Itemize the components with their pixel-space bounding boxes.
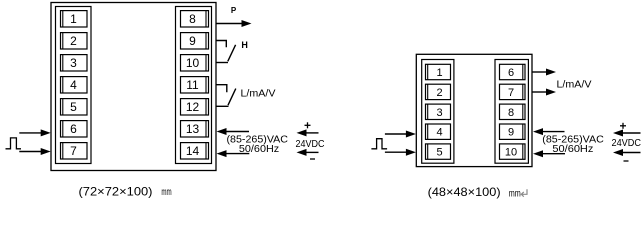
relay contact L lower wire from terminal 12 — [216, 105, 229, 107]
svg-text:(72×72×100): (72×72×100) — [79, 184, 153, 198]
svg-text:9: 9 — [508, 127, 514, 139]
svg-text:2: 2 — [70, 34, 77, 48]
label mm (48x48) — [509, 187, 521, 198]
svg-text:6: 6 — [508, 67, 514, 79]
svg-text:L/mA/V: L/mA/V — [241, 87, 276, 99]
wire P output arrow from terminal 8 — [217, 20, 252, 27]
svg-text:5: 5 — [436, 147, 442, 159]
wire pulse arrow into terminal 5 (48x48) — [385, 149, 416, 156]
pulse input symbol (72x72) — [6, 138, 22, 149]
terminal 3 (48x48) — [426, 104, 451, 119]
label 24VDC (72x72) — [296, 139, 325, 150]
wire AC input arrow into terminal 9 (48x48) — [533, 128, 565, 135]
terminal 7 (48x48) — [500, 84, 526, 99]
svg-text:5: 5 — [70, 100, 77, 114]
svg-text:14: 14 — [186, 144, 200, 158]
paragraph return mark — [521, 189, 527, 196]
terminal 1 — [61, 11, 88, 27]
svg-text:P: P — [231, 6, 237, 15]
label H — [241, 40, 248, 50]
terminal 4 — [61, 77, 88, 93]
svg-text:H: H — [241, 40, 248, 50]
wire AC input arrow into terminal 10 (48x48) — [533, 150, 565, 157]
terminal 13 — [181, 121, 209, 137]
svg-text:9: 9 — [189, 34, 196, 48]
pulse input symbol (48x48) — [371, 139, 387, 149]
terminal 4 (48x48) — [426, 124, 451, 139]
terminal 6 (48x48) — [500, 64, 526, 79]
wire 24VDC plus arrow (48x48) — [613, 130, 641, 137]
svg-text:mm: mm — [161, 186, 171, 198]
wire output arrow from terminal 6 (48x48) — [532, 69, 556, 76]
svg-text:11: 11 — [186, 78, 199, 92]
meter body (48x48) outer case — [416, 54, 532, 166]
svg-text:1: 1 — [70, 12, 77, 26]
svg-text:L/mA/V: L/mA/V — [557, 79, 592, 91]
svg-text:mm: mm — [509, 187, 521, 198]
wire AC input arrow into terminal 13 — [217, 128, 250, 135]
svg-text:3: 3 — [436, 107, 442, 119]
terminal 14 — [181, 143, 209, 159]
label 50/60Hz (48x48) — [552, 143, 593, 155]
svg-text:4: 4 — [70, 78, 77, 92]
svg-text:12: 12 — [186, 100, 200, 114]
relay contact H lower wire from terminal 10 — [216, 62, 228, 64]
wire pulse arrow into terminal 7 — [19, 148, 50, 155]
svg-text:7: 7 — [70, 144, 77, 158]
svg-text:10: 10 — [186, 56, 200, 70]
terminal 7 — [61, 143, 88, 159]
svg-text:(48×48×100): (48×48×100) — [428, 185, 501, 199]
wire output arrow from terminal 7 (48x48) — [532, 89, 556, 96]
plus sign of 24VDC (72x72) — [305, 122, 311, 128]
svg-text:1: 1 — [436, 67, 442, 79]
svg-text:10: 10 — [505, 147, 517, 159]
label 50/60Hz — [239, 143, 279, 155]
wire AC input arrow into terminal 14 — [217, 150, 250, 157]
terminal 9 — [181, 33, 209, 49]
wire pulse arrow into terminal 6 — [19, 129, 50, 136]
wire 24VDC minus arrow (48x48) — [613, 149, 641, 156]
label (48x48x100) — [428, 185, 501, 199]
terminal 1 (48x48) — [426, 64, 451, 79]
svg-text:7: 7 — [508, 87, 514, 99]
label P — [231, 6, 237, 15]
label 24VDC (48x48) — [612, 138, 642, 149]
plus sign of 24VDC (48x48) — [620, 123, 626, 129]
label mm (72x72) — [161, 186, 171, 198]
terminal 6 — [61, 121, 88, 137]
svg-text:4: 4 — [436, 127, 442, 139]
svg-text:24VDC: 24VDC — [296, 139, 325, 150]
terminal 3 — [61, 55, 88, 71]
terminal 10 (48x48) — [500, 144, 526, 159]
terminal 8 — [181, 11, 209, 27]
label (85-265)VAC — [227, 133, 289, 145]
minus sign of 24VDC (72x72) — [310, 158, 315, 160]
label (85-265)VAC (48x48) — [542, 134, 604, 146]
terminal 2 (48x48) — [426, 84, 451, 99]
wire 24VDC plus arrow — [297, 129, 319, 136]
wire pulse arrow into terminal 4 (48x48) — [385, 131, 416, 138]
relay contact L upper wire from terminal 11 — [216, 85, 227, 93]
terminal 12 — [181, 99, 209, 115]
left terminal strip (48x48) — [422, 60, 454, 164]
terminal 5 (48x48) — [426, 144, 451, 159]
minus sign of 24VDC (48x48) — [624, 160, 629, 162]
svg-text:13: 13 — [186, 122, 200, 136]
terminal 9 (48x48) — [500, 124, 526, 139]
relay contact H upper wire from terminal 9 — [216, 41, 227, 48]
left terminal strip (72x72) — [56, 7, 92, 164]
terminal 8 (48x48) — [500, 104, 526, 119]
right terminal strip (48x48) — [495, 60, 528, 164]
terminal 10 — [181, 55, 209, 71]
meter body (72x72) outer case — [51, 3, 216, 171]
relay contact H blade — [228, 45, 236, 62]
svg-text:24VDC: 24VDC — [612, 138, 642, 149]
svg-text:6: 6 — [70, 122, 77, 136]
terminal 2 — [61, 33, 88, 49]
label L/mA/V — [241, 87, 276, 99]
label L/mA/V (48x48) — [557, 79, 592, 91]
svg-text:8: 8 — [508, 107, 514, 119]
wire 24VDC minus arrow — [297, 149, 319, 156]
svg-text:3: 3 — [70, 56, 77, 70]
svg-text:2: 2 — [436, 87, 442, 99]
right terminal strip (72x72) — [176, 7, 212, 164]
svg-text:8: 8 — [189, 12, 196, 26]
terminal 11 — [181, 77, 209, 93]
label (72x72x100) — [79, 184, 153, 198]
terminal 5 — [61, 99, 88, 115]
relay contact L blade — [228, 89, 236, 106]
